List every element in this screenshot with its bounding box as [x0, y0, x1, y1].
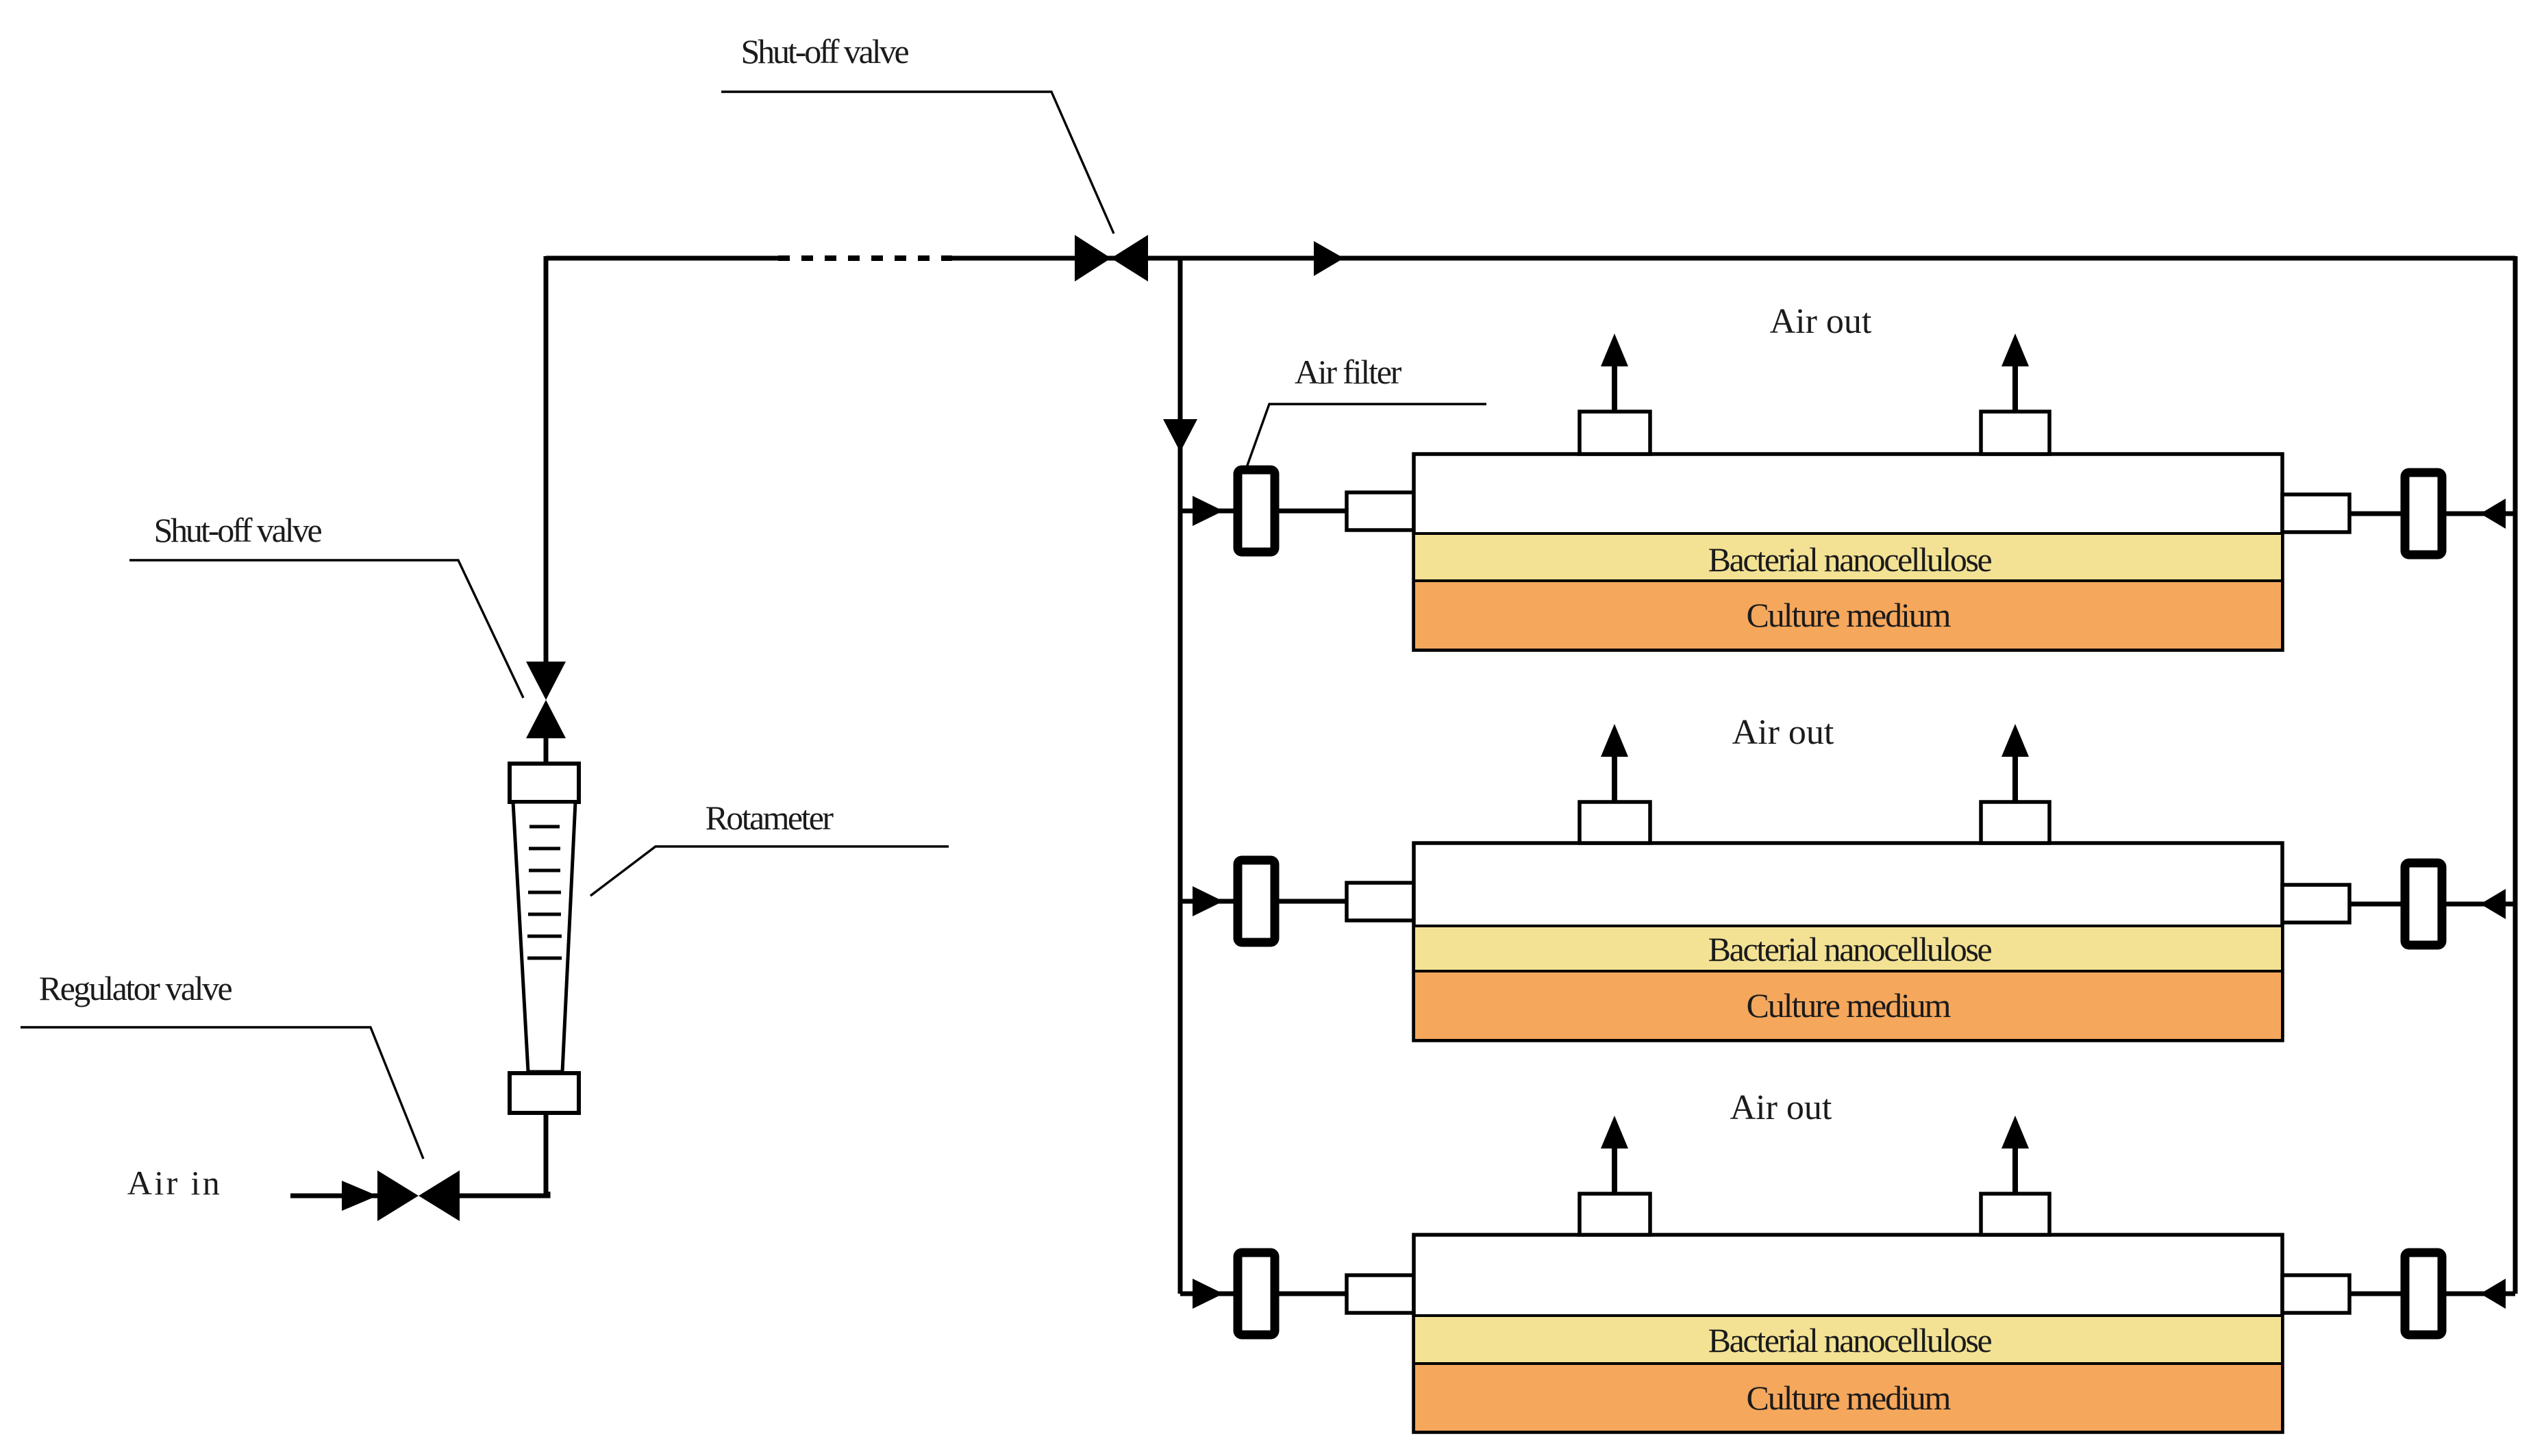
air filter F3R (right): [2405, 1253, 2442, 1335]
vessel body R1: [1414, 454, 2282, 650]
wire: left manifold vertical: [1178, 256, 1183, 1294]
bacterial nanocellulose layer R1: [1414, 534, 2282, 581]
wire: dashed segment of header: [778, 255, 952, 261]
vent stem R1 left: [1612, 365, 1617, 412]
wire: air-in horizontal to regulator valve: [290, 1194, 377, 1198]
svg-text:Culture medium: Culture medium: [1747, 1379, 1951, 1417]
culture medium layer R3: [1414, 1364, 2282, 1432]
bacterial nanocellulose layer R2: [1414, 926, 2282, 971]
leader line for left shut-off valve: [129, 560, 523, 698]
flow arrow into right filter R1: [2480, 499, 2506, 529]
vessel body R2: [1414, 843, 2282, 1040]
wire: filter to inlet nozzle R3: [1279, 1292, 1347, 1296]
svg-text:Shut-off valve: Shut-off valve: [153, 511, 321, 549]
flow arrow down on manifold: [1163, 419, 1197, 452]
air filter F2R (right): [2405, 863, 2442, 945]
valve RV1: regulator valve: [377, 1170, 460, 1221]
inlet nozzle R2: [1347, 883, 1414, 920]
wire: manifold branch to left filter R3: [1180, 1292, 1234, 1296]
svg-text:Shut-off valve: Shut-off valve: [740, 32, 908, 71]
wire: right trunk to right filter R3: [2446, 1292, 2515, 1296]
svg-text:Regulator valve: Regulator valve: [39, 969, 232, 1007]
flow arrow into left filter R3: [1193, 1279, 1223, 1309]
svg-text:Culture medium: Culture medium: [1747, 596, 1951, 634]
wire: rotameter down to air-in run: [544, 1113, 549, 1196]
wire: manifold branch to left filter R1: [1180, 509, 1234, 514]
wire: header from dash to main shut-off valve and on to top-right corner: [951, 256, 2515, 261]
svg-text:Bacterial nanocellulose: Bacterial nanocellulose: [1708, 540, 1992, 579]
vent arrowhead R1 right: [2001, 334, 2029, 366]
wire: right trunk to right filter R1: [2446, 512, 2515, 516]
rotameter scale ticks: [527, 827, 562, 958]
wire: right trunk vertical: [2513, 256, 2518, 1294]
rotameter FI1: [510, 764, 579, 1113]
vent stem R2 left: [1612, 755, 1617, 802]
wire: stem valve SV2 to rotameter: [544, 738, 549, 766]
outlet nozzle R2 (right): [2282, 885, 2349, 922]
air filter F2L (left): [1238, 860, 1275, 942]
vent arrowhead R3 right: [2001, 1116, 2029, 1149]
wire: regulator valve to riser corner: [460, 1192, 548, 1196]
wire: left supply vertical (header corner down to shut-off valve SV2): [544, 256, 549, 662]
culture medium layer R1: [1414, 581, 2282, 650]
rotameter tapered tube: [513, 802, 575, 1072]
svg-text:Bacterial nanocellulose: Bacterial nanocellulose: [1708, 1321, 1992, 1359]
wire: filter to inlet nozzle R2: [1279, 899, 1347, 904]
wire: manifold branch to left filter R2: [1180, 899, 1234, 904]
vent stem R3 right: [2012, 1147, 2018, 1194]
vent arrowhead R2 left: [1601, 724, 1628, 757]
air filter F1L (left): [1238, 470, 1275, 552]
vent arrowhead R3 left: [1601, 1116, 1628, 1149]
vent stem R3 left: [1612, 1147, 1617, 1194]
flow arrow into right filter R2: [2480, 889, 2506, 919]
wire: outlet nozzle to right filter R2: [2349, 902, 2401, 907]
svg-text:Air out: Air out: [1770, 302, 1872, 341]
svg-text:Bacterial nanocellulose: Bacterial nanocellulose: [1708, 930, 1992, 968]
culture medium layer R2: [1414, 971, 2282, 1040]
outlet nozzle R1 (right): [2282, 494, 2349, 532]
valve SV2: left vertical shut-off valve: [526, 662, 566, 738]
vent chimney R3 left: [1580, 1194, 1650, 1235]
wire: supply riser top horizontal (solid part left): [546, 256, 778, 261]
svg-text:Air out: Air out: [1732, 713, 1834, 752]
flow arrow into left filter R1: [1193, 496, 1223, 526]
flow arrow into right filter R3: [2480, 1279, 2506, 1309]
leader line for air filter: [1246, 404, 1486, 469]
wire: outlet nozzle to right filter R1: [2349, 512, 2401, 516]
vent chimney R3 right: [1981, 1194, 2049, 1235]
air filter F3L (left): [1238, 1253, 1275, 1335]
wire: outlet nozzle to right filter R3: [2349, 1292, 2401, 1296]
inlet nozzle R3: [1347, 1275, 1414, 1313]
wire: filter to inlet nozzle R1: [1279, 509, 1347, 514]
svg-text:Culture medium: Culture medium: [1747, 986, 1951, 1025]
vent chimney R1 right: [1981, 412, 2049, 454]
vent arrowhead R1 left: [1601, 334, 1628, 366]
bacterial nanocellulose layer R3: [1414, 1316, 2282, 1364]
leader line for rotameter: [590, 846, 949, 896]
leader line for regulator valve: [21, 1027, 423, 1159]
air filter F1R (right): [2405, 473, 2442, 555]
vent chimney R2 right: [1981, 802, 2049, 843]
svg-text:Air in: Air in: [127, 1164, 222, 1202]
flow arrow into left filter R2: [1193, 886, 1223, 916]
svg-text:Air out: Air out: [1730, 1088, 1832, 1127]
vent chimney R2 left: [1580, 802, 1650, 843]
rotameter bottom fitting: [510, 1073, 579, 1113]
inlet nozzle R1: [1347, 492, 1414, 530]
vent stem R1 right: [2012, 365, 2018, 412]
rotameter top fitting: [510, 764, 579, 802]
valve SV1: main shut-off valve on header: [1075, 235, 1148, 281]
vent chimney R1 left: [1580, 412, 1650, 454]
wire: right trunk to right filter R2: [2446, 902, 2515, 907]
vessel body R3: [1414, 1235, 2282, 1432]
svg-text:Air filter: Air filter: [1295, 353, 1402, 391]
leader line for top shut-off valve: [721, 92, 1114, 234]
outlet nozzle R3 (right): [2282, 1275, 2349, 1313]
vent stem R2 right: [2012, 755, 2018, 802]
vent arrowhead R2 right: [2001, 724, 2029, 757]
svg-text:Rotameter: Rotameter: [706, 799, 834, 837]
flow arrow at air inlet: [342, 1181, 377, 1211]
flow arrow on header after valve: [1314, 241, 1344, 276]
